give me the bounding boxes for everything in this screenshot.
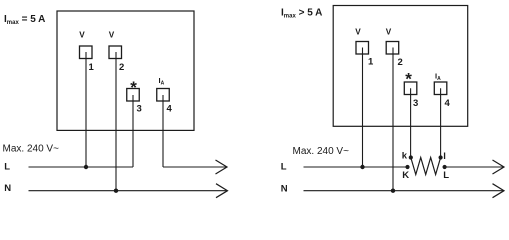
terminal 1 square (right) bbox=[356, 42, 369, 55]
arrowhead N (left) bbox=[216, 184, 228, 198]
svg-text:L: L bbox=[281, 162, 287, 173]
wire terminal 1 to L (right) bbox=[362, 48, 364, 168]
svg-text:Max. 240 V~: Max. 240 V~ bbox=[3, 144, 60, 155]
svg-text:k: k bbox=[402, 151, 408, 162]
meter M1 outline (direct connected meter) bbox=[57, 11, 194, 130]
svg-text:3: 3 bbox=[413, 98, 418, 109]
svg-text:4: 4 bbox=[167, 104, 173, 115]
junction dot L / terminal 1 (right) bbox=[360, 165, 364, 169]
wire N (left) bbox=[29, 190, 228, 192]
junction dot N / terminal 2 bbox=[114, 189, 118, 193]
terminal 4 square (right) bbox=[434, 82, 447, 95]
svg-text:2: 2 bbox=[119, 62, 124, 73]
arrowhead L (right) bbox=[493, 160, 505, 174]
arrowhead L (left) bbox=[216, 160, 228, 174]
svg-text:N: N bbox=[4, 183, 11, 194]
svg-text:L: L bbox=[443, 170, 449, 181]
svg-text:L: L bbox=[4, 162, 10, 173]
terminal 2 square (right) bbox=[386, 42, 399, 55]
arrowhead N (right) bbox=[493, 184, 505, 198]
svg-text:1: 1 bbox=[368, 57, 374, 68]
svg-text:Max. 240 V~: Max. 240 V~ bbox=[293, 146, 350, 157]
wire terminal 2 to N (right) bbox=[392, 48, 394, 191]
terminal 4 square bbox=[157, 89, 170, 102]
wire terminal 3 to k bbox=[410, 88, 412, 157]
svg-text:V: V bbox=[79, 31, 85, 40]
svg-text:N: N bbox=[281, 183, 288, 194]
current transformer T1 winding bbox=[411, 158, 441, 175]
svg-text:V: V bbox=[355, 28, 361, 37]
wire L out to load (right) bbox=[445, 166, 504, 168]
node K dot bbox=[405, 165, 409, 169]
meter M2 outline (CT connected meter) bbox=[333, 6, 468, 127]
terminal 3 square bbox=[127, 89, 140, 102]
wire terminal 3 to L bbox=[132, 95, 134, 167]
svg-text:*: * bbox=[405, 69, 412, 88]
junction dot N / terminal 2 (right) bbox=[391, 189, 395, 193]
wire terminal 2 to N bbox=[115, 52, 117, 191]
junction dot L / terminal 1 bbox=[84, 165, 88, 169]
wire L in (left) bbox=[29, 166, 134, 168]
svg-text:V: V bbox=[386, 28, 392, 37]
svg-text:2: 2 bbox=[398, 57, 403, 68]
svg-text:l: l bbox=[443, 151, 446, 162]
wire N (right) bbox=[304, 190, 504, 192]
terminal 1 square bbox=[80, 46, 93, 59]
node l dot bbox=[439, 155, 443, 159]
svg-text:1: 1 bbox=[89, 62, 95, 73]
svg-text:K: K bbox=[402, 170, 409, 181]
node k dot bbox=[409, 155, 413, 159]
wire L in to CT primary K bbox=[304, 166, 408, 168]
wire terminal 1 to L bbox=[85, 52, 87, 167]
wire terminal 4 down to L out bbox=[162, 95, 164, 167]
wire terminal 4 to l bbox=[440, 88, 442, 157]
node L dot bbox=[443, 165, 447, 169]
terminal 2 square bbox=[109, 46, 122, 59]
wire L out to load (left) bbox=[163, 166, 227, 168]
svg-text:3: 3 bbox=[137, 104, 142, 115]
terminal 3 square (right) bbox=[404, 82, 417, 95]
svg-text:4: 4 bbox=[445, 98, 451, 109]
svg-text:*: * bbox=[130, 78, 137, 97]
svg-text:V: V bbox=[109, 31, 115, 40]
